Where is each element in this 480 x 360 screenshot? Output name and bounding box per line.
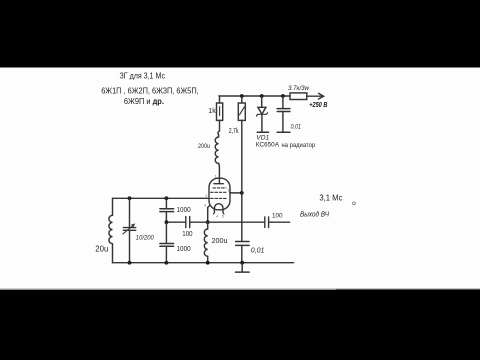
- svg-text:6Ж9П и др.: 6Ж9П и др.: [124, 96, 164, 106]
- svg-text:100: 100: [182, 231, 192, 238]
- svg-text:20u: 20u: [95, 245, 108, 254]
- svg-text:2,7k: 2,7k: [229, 126, 239, 135]
- svg-text:5: 5: [222, 215, 224, 219]
- resistor R 3.7k/3w: [290, 93, 307, 100]
- tube cathode heater: [214, 204, 223, 213]
- svg-text:6: 6: [228, 189, 230, 193]
- node: middle junction: [165, 220, 169, 224]
- wire: bottom rail: [113, 262, 294, 264]
- variable capacitor C 10/200: [129, 198, 131, 262]
- svg-text:КС650А: КС650А: [256, 142, 280, 149]
- node: rail junction at C 0,01: [281, 94, 285, 98]
- zener diode VD1: [261, 96, 263, 107]
- svg-text:3,1 Мс: 3,1 Мс: [319, 194, 342, 203]
- svg-text:+250 В: +250 В: [309, 100, 327, 109]
- wire: left tank vertical: [112, 198, 114, 262]
- title text: [101, 71, 199, 107]
- inductor L 200u (anode choke): [218, 135, 220, 137]
- svg-text:1k: 1k: [208, 108, 216, 115]
- node: rail junction at VD1: [260, 94, 264, 98]
- output labels: [300, 194, 343, 219]
- node: grid junction: [240, 191, 244, 195]
- wire: tube left lead to tank: [113, 197, 210, 199]
- svg-text:Выход ВЧ: Выход ВЧ: [300, 210, 329, 218]
- capacitor C 0,01 (cathode): [236, 241, 250, 243]
- inductor L 20u: [109, 215, 113, 243]
- capacitor C 100 (feedback): [186, 217, 190, 228]
- svg-text:4: 4: [216, 215, 218, 219]
- wire: top supply rail: [219, 95, 290, 97]
- node: bottom junctions: [128, 261, 132, 265]
- wire: cathode row y=222: [166, 221, 264, 223]
- capacitor C 100 (output): [265, 217, 269, 228]
- capacitor C 1000 (top): [165, 198, 167, 208]
- wire: long vertical from R2 down: [241, 120, 243, 241]
- svg-text:0,01: 0,01: [251, 247, 265, 254]
- white schematic area: [0, 68, 480, 289]
- node: tank top junctions: [128, 196, 132, 200]
- capacitor C 0,01 (top): [282, 96, 284, 108]
- ground: [241, 263, 243, 272]
- svg-text:200u: 200u: [198, 143, 210, 150]
- bottom separator line: [0, 289, 336, 290]
- node: rail junction at R 2,7k: [240, 94, 244, 98]
- svg-text:3: 3: [204, 203, 206, 207]
- svg-text:на радиатор: на радиатор: [282, 142, 316, 149]
- svg-text:10/200: 10/200: [136, 234, 154, 241]
- ground bar of C 0,01: [277, 131, 290, 133]
- resistor R1 1k: [219, 96, 221, 103]
- node: cathode junction: [206, 220, 210, 224]
- tube grids (dashed): [213, 187, 226, 189]
- wire: tube bottom-left lead: [208, 206, 210, 223]
- capacitor C 1000 (bottom): [165, 222, 167, 243]
- wire: grid to R2 node: [230, 192, 242, 194]
- ground bar of VD1: [257, 131, 268, 133]
- tube pin numbers: [204, 175, 230, 219]
- wire: arrow to +250V: [307, 95, 323, 97]
- svg-text:100: 100: [272, 213, 283, 220]
- svg-text:ЗГ для 3,1 Мс: ЗГ для 3,1 Мс: [120, 71, 166, 81]
- tube anode bar: [214, 183, 223, 185]
- svg-text:1: 1: [215, 175, 217, 179]
- svg-text:VD1: VD1: [256, 135, 269, 142]
- tube V1 envelope: [218, 166, 220, 184]
- inductor L 200u (cathode choke): [207, 222, 209, 229]
- svg-text:1000: 1000: [177, 207, 191, 214]
- resistor R2 2,7k: [241, 96, 243, 103]
- small circle artifact: [353, 202, 356, 205]
- svg-text:3.7к/3w: 3.7к/3w: [288, 85, 310, 92]
- svg-text:6Ж1П , 6Ж2П, 6Ж3П, 6Ж5П,: 6Ж1П , 6Ж2П, 6Ж3П, 6Ж5П,: [101, 86, 199, 96]
- svg-text:200u: 200u: [212, 236, 228, 245]
- svg-text:1000: 1000: [177, 246, 191, 253]
- svg-text:0,01: 0,01: [291, 124, 301, 131]
